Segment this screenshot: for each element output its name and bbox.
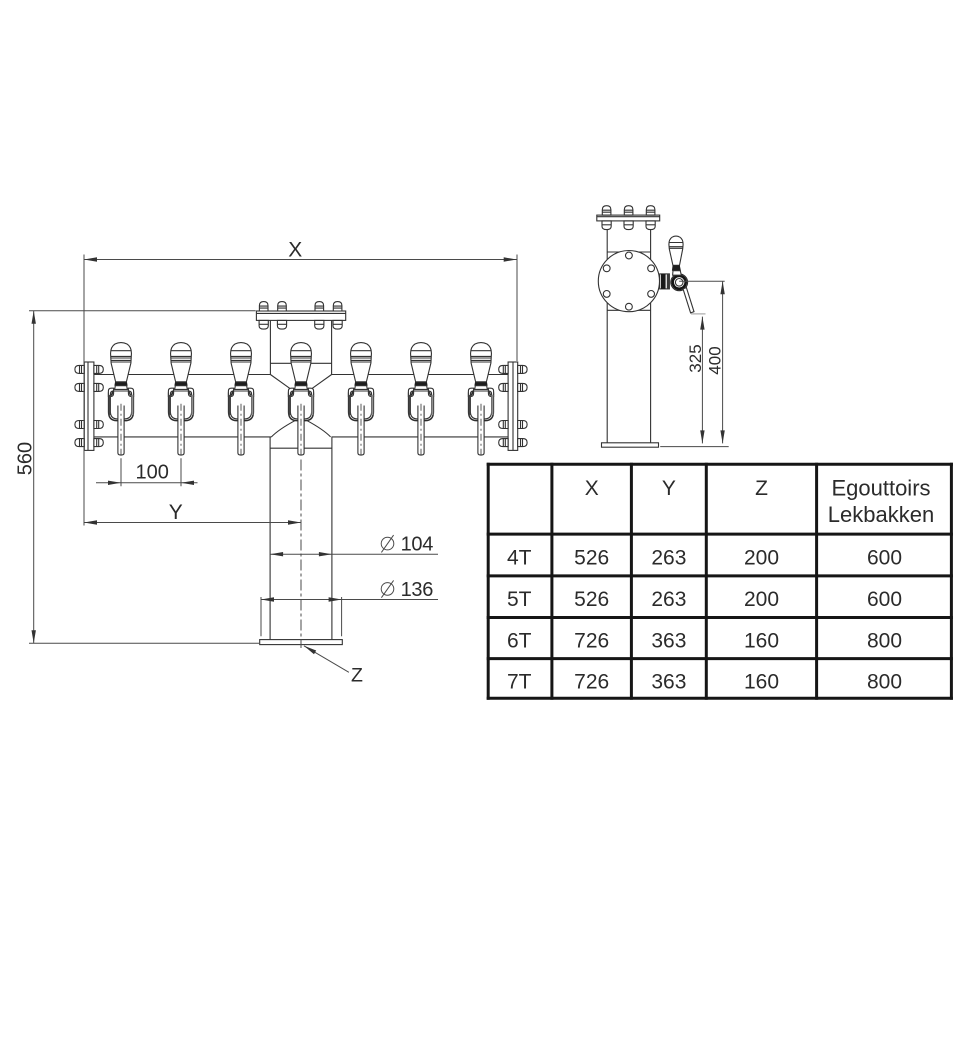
dim 100 extension lines — [121, 458, 181, 486]
junction fillet bottom right — [307, 420, 331, 437]
tap 6 — [408, 343, 433, 459]
svg-text:5T: 5T — [507, 588, 532, 611]
side base plate — [602, 443, 659, 447]
svg-text:726: 726 — [574, 630, 609, 653]
side ground extension line — [660, 446, 729, 448]
tap 4 center — [288, 343, 313, 459]
SIDE VIEW — [597, 206, 729, 447]
svg-text:6T: 6T — [507, 630, 532, 653]
svg-text:560: 560 — [15, 442, 37, 475]
junction chamfer top right — [310, 375, 331, 390]
svg-text:526: 526 — [574, 588, 609, 611]
svg-text:200: 200 — [744, 546, 779, 569]
svg-text:325: 325 — [686, 344, 705, 372]
svg-text:363: 363 — [651, 671, 686, 694]
tap 1 — [108, 343, 133, 459]
dim 100 line — [96, 482, 198, 484]
svg-text:363: 363 — [651, 630, 686, 653]
svg-text:X: X — [585, 477, 599, 500]
svg-text:Lekbakken: Lekbakken — [828, 502, 934, 527]
side top flange plate — [597, 215, 660, 221]
top flange nuts — [259, 320, 268, 329]
svg-text:726: 726 — [574, 671, 609, 694]
dim 400 extension — [679, 280, 725, 282]
dim Y extension — [83, 361, 85, 526]
horizontal cross tube top edge — [94, 374, 508, 376]
svg-text:4T: 4T — [507, 546, 532, 569]
dim dia136 line — [261, 599, 438, 601]
junction chamfer top left — [270, 375, 291, 390]
svg-text:104: 104 — [401, 534, 434, 556]
svg-text:400: 400 — [706, 346, 725, 374]
top flange plate — [256, 311, 345, 320]
left flange plate — [84, 362, 94, 450]
dia104 symbol — [381, 537, 394, 550]
side flange bolts — [602, 206, 611, 215]
svg-text:Z: Z — [755, 477, 768, 500]
side tap handle — [669, 236, 683, 265]
junction fillet bottom left — [271, 420, 295, 437]
lever foot line — [691, 313, 706, 315]
svg-text:160: 160 — [744, 671, 779, 694]
round body disc — [598, 251, 659, 312]
svg-text:800: 800 — [867, 671, 902, 694]
left flange bolts left side — [75, 365, 84, 373]
column centerline — [300, 460, 302, 649]
side tube joint lines — [607, 252, 650, 310]
svg-text:136: 136 — [401, 579, 434, 601]
left flange bolts right side — [94, 365, 103, 373]
svg-text:800: 800 — [867, 630, 902, 653]
tap 5 — [348, 343, 373, 459]
table grid — [488, 463, 951, 700]
dim 560 extension lines — [29, 311, 259, 644]
side flange nuts — [602, 221, 611, 230]
dia136 symbol — [381, 583, 394, 596]
svg-text:Y: Y — [169, 501, 183, 524]
svg-text:263: 263 — [651, 588, 686, 611]
right flange bolts right side — [518, 365, 527, 373]
dim X line — [84, 259, 517, 261]
FRONT VIEW — [15, 239, 528, 687]
svg-text:100: 100 — [136, 461, 169, 483]
svg-text:7T: 7T — [507, 671, 532, 694]
tap 7 — [468, 343, 493, 459]
tap shank striped — [660, 274, 670, 289]
svg-text:160: 160 — [744, 630, 779, 653]
dim 400 line — [722, 281, 724, 443]
tap 3 — [228, 343, 253, 459]
column weld joint line — [270, 447, 332, 449]
side tap lever — [683, 288, 694, 313]
side tap ring — [671, 274, 688, 291]
svg-text:526: 526 — [574, 546, 609, 569]
svg-text:600: 600 — [867, 546, 902, 569]
right flange plate — [508, 362, 518, 450]
side tap collar — [672, 265, 681, 270]
svg-text:263: 263 — [651, 546, 686, 569]
dim dia104 line — [270, 553, 438, 555]
svg-text:Y: Y — [662, 477, 676, 500]
right flange bolts left side — [499, 365, 508, 373]
dim X extension lines — [84, 255, 517, 362]
dim Y line — [84, 522, 301, 524]
svg-text:600: 600 — [867, 588, 902, 611]
tap 2 — [168, 343, 193, 459]
top flange bolts — [259, 302, 268, 311]
dim dia136 extension lines — [261, 597, 342, 636]
disc bolt holes — [603, 252, 654, 310]
TABLE — [487, 463, 953, 700]
svg-text:Z: Z — [351, 665, 363, 687]
svg-text:Egouttoirs: Egouttoirs — [831, 476, 930, 501]
svg-text:200: 200 — [744, 588, 779, 611]
base plate — [260, 640, 343, 645]
main column — [270, 437, 332, 640]
side column tube — [607, 221, 650, 443]
horizontal cross tube bottom edge — [94, 436, 508, 438]
neck below top flange — [270, 320, 331, 374]
side tap neck — [673, 271, 682, 276]
dim 325 line — [701, 317, 703, 444]
leader Z arrow — [304, 646, 349, 673]
svg-text:X: X — [288, 239, 302, 262]
dim 560 line — [33, 311, 35, 644]
